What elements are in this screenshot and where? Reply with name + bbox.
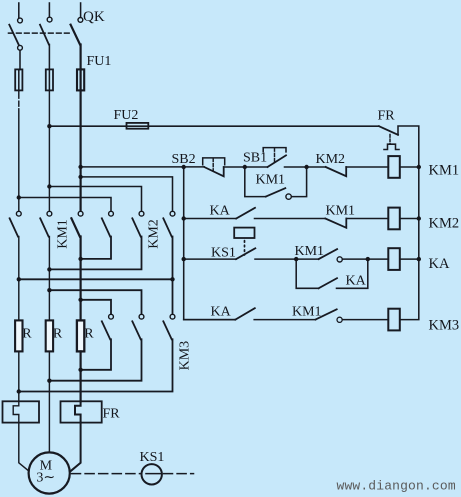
svg-text:SB1: SB1 (243, 151, 267, 166)
svg-text:SB2: SB2 (172, 152, 196, 167)
svg-text:KM3: KM3 (177, 341, 192, 371)
svg-text:3∼: 3∼ (36, 471, 55, 486)
svg-text:www.diangon.com: www.diangon.com (337, 479, 456, 494)
svg-text:KM2: KM2 (429, 216, 460, 232)
svg-text:QK: QK (83, 9, 105, 25)
svg-text:KM2: KM2 (146, 219, 161, 249)
svg-text:R: R (22, 327, 32, 342)
svg-text:R: R (53, 327, 63, 342)
svg-text:KM2: KM2 (316, 152, 346, 167)
svg-text:KA: KA (210, 204, 231, 219)
svg-text:KA: KA (346, 274, 367, 289)
svg-text:KM1: KM1 (292, 305, 322, 320)
svg-text:KM1: KM1 (429, 163, 460, 179)
svg-text:KM1: KM1 (326, 204, 356, 219)
svg-text:FU2: FU2 (114, 108, 139, 123)
svg-text:FU1: FU1 (87, 54, 112, 69)
svg-text:KM1: KM1 (55, 219, 70, 249)
svg-text:FR: FR (378, 109, 396, 124)
svg-text:KS1: KS1 (211, 246, 236, 261)
svg-text:KM3: KM3 (429, 318, 460, 334)
svg-text:R: R (84, 327, 94, 342)
svg-text:KM1: KM1 (256, 173, 286, 188)
svg-text:FR: FR (103, 407, 121, 422)
svg-text:KS1: KS1 (140, 450, 165, 465)
svg-text:KM1: KM1 (295, 244, 325, 259)
svg-text:KA: KA (429, 256, 450, 272)
svg-text:KA: KA (211, 305, 232, 320)
